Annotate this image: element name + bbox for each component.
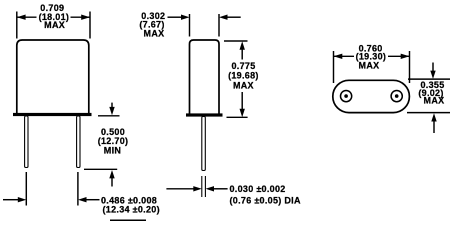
- svg-text:(12.34 ±0.20): (12.34 ±0.20): [103, 205, 160, 215]
- svg-text:0.030 ±0.002: 0.030 ±0.002: [230, 184, 286, 194]
- middle view: crystal can body (side): [190, 40, 220, 115]
- dim 0.709: dimension line: [17, 16, 90, 18]
- dim 0.302: extension lines: [190, 14, 220, 37]
- dim 0.355: bottom arrow (up): [433, 122, 435, 134]
- left view: crystal can body (front): [17, 40, 89, 114]
- svg-text:(19.68): (19.68): [228, 71, 259, 81]
- dim 0.486: left arrow: [3, 199, 19, 201]
- dim 0.486: extension lines below leads: [26, 172, 78, 206]
- bottom page artifact line: [110, 219, 146, 221]
- svg-text:MIN: MIN: [104, 145, 121, 155]
- left view: right lead: [77, 116, 80, 168]
- middle view: base flange: [186, 113, 223, 116]
- svg-text:MAX: MAX: [424, 96, 445, 106]
- left view: left lead: [25, 116, 28, 168]
- dim 0.486: right arrow: [86, 199, 100, 201]
- dim 0.775: dimension line with outward arrows: [241, 47, 243, 111]
- dim 0.760: arrowheads: [334, 54, 343, 59]
- dim 0.030: extension lines below lead: [202, 176, 206, 197]
- right view: stadium outline (bottom view): [333, 80, 410, 112]
- dim 0.500: bottom arrow (up): [111, 178, 113, 187]
- middle view: lead: [202, 117, 206, 171]
- svg-text:MAX: MAX: [359, 60, 380, 70]
- dim 0.355: top arrow (down): [432, 63, 434, 72]
- dim 0.760: extension lines: [334, 51, 410, 83]
- dim 0.709: left arrowhead: [17, 15, 26, 20]
- dim 0.775: top reference line: [224, 40, 248, 42]
- dim 0.500: top arrow (down): [111, 103, 113, 108]
- dim 0.355: top reference line: [408, 78, 450, 80]
- dim 0.302: right arrow: [227, 16, 241, 18]
- dim 0.709: right arrowhead: [81, 15, 90, 20]
- dim 0.760: dimension line: [334, 55, 410, 57]
- right view: right pin circle: [391, 91, 402, 102]
- svg-text:MAX: MAX: [144, 29, 165, 39]
- right view: left pin circle: [341, 91, 352, 102]
- dim 0.500: bottom reference line: [84, 168, 117, 170]
- dim 0.775: bottom reference line: [227, 116, 248, 118]
- dim 0.709: extension lines: [17, 12, 90, 39]
- dim 0.302: left arrow: [168, 16, 182, 18]
- dim 0.355: bottom reference line: [407, 112, 450, 114]
- svg-text:MAX: MAX: [233, 81, 254, 91]
- svg-text:(0.76 ±0.05) DIA: (0.76 ±0.05) DIA: [230, 195, 301, 205]
- svg-text:0.775: 0.775: [231, 61, 255, 71]
- dim 0.030: right arrow: [214, 188, 228, 190]
- dim 0.500: top reference line: [98, 115, 120, 117]
- svg-text:MAX: MAX: [44, 20, 65, 30]
- dim 0.030: left arrow: [166, 188, 194, 190]
- left view: base flange: [13, 113, 92, 116]
